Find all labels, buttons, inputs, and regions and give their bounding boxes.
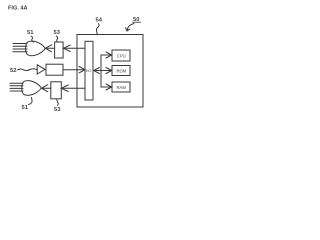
- I/O to bus to ROM wire: [94, 70, 111, 72]
- bus branch to RAM: [101, 86, 111, 88]
- main board box 54/50: [77, 35, 143, 108]
- svg-text:RAM: RAM: [117, 85, 127, 90]
- leader from bottom 53 to box: [57, 100, 59, 106]
- svg-text:FIG. 4A: FIG. 4A: [8, 5, 28, 11]
- wire gate to box 53 bottom: [42, 87, 51, 89]
- amp box 53 bottom: [51, 82, 62, 99]
- svg-text:51: 51: [27, 30, 34, 36]
- leader from 54 to board: [97, 24, 100, 35]
- arrowhead into gate tip (top row): [45, 45, 51, 52]
- arrowhead into box 53 bottom (from board): [61, 85, 68, 92]
- speaker input lines (bottom): [10, 83, 23, 91]
- leader from 52: [18, 69, 37, 71]
- I/O block: [85, 41, 93, 100]
- leader from 53 to box: [57, 36, 59, 42]
- svg-text:54: 54: [96, 18, 103, 24]
- arrowhead into I/O (right-pointing): [79, 67, 85, 73]
- bus vertical line: [100, 55, 102, 87]
- hook arrow from 50 to board: [127, 24, 134, 31]
- gate/speaker symbol 51 top: [26, 41, 46, 56]
- wire sensor to board: [63, 69, 85, 71]
- arrowhead into RAM: [106, 84, 112, 90]
- svg-text:CPU: CPU: [117, 53, 126, 58]
- wire board to box 53 bottom: [61, 87, 85, 89]
- svg-text:53: 53: [54, 30, 61, 36]
- svg-text:53: 53: [54, 107, 61, 113]
- wire gate to box 53 top: [45, 47, 54, 49]
- svg-text:I/O: I/O: [86, 68, 91, 73]
- bus branch to CPU: [101, 54, 111, 56]
- speaker input lines (top): [13, 44, 27, 52]
- arrowhead into gate tip (bottom row): [42, 85, 48, 92]
- underline of 50: [133, 21, 141, 23]
- sensor body box 52: [46, 64, 63, 75]
- leader from 51 to gate: [31, 36, 34, 42]
- svg-text:51: 51: [22, 105, 29, 111]
- arrowhead into CPU: [106, 52, 112, 58]
- arrowhead into box 53 top (from board): [63, 45, 70, 52]
- svg-text:ROM: ROM: [117, 69, 127, 74]
- leader from bottom 51 to gate: [29, 98, 33, 105]
- gate/speaker symbol 51 bottom: [22, 81, 42, 96]
- ROM box: [112, 66, 130, 76]
- amp box 53 top: [55, 42, 64, 58]
- arrowhead into ROM: [106, 68, 112, 74]
- wire board to box 53 top: [63, 47, 85, 49]
- svg-text:52: 52: [10, 68, 16, 74]
- RAM box: [112, 82, 130, 92]
- CPU box: [112, 50, 130, 61]
- arrowhead into I/O (left-pointing): [94, 68, 100, 74]
- sensor triangle 52: [37, 65, 45, 74]
